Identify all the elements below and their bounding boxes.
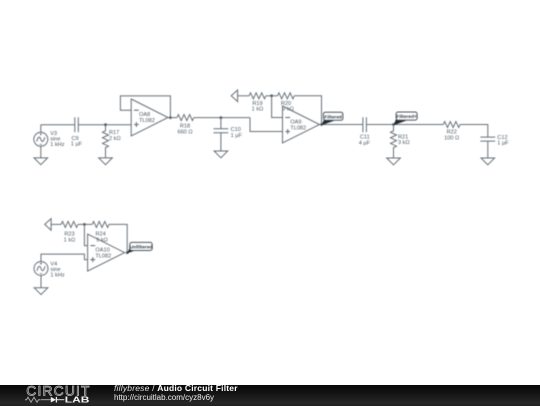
label OA8 name <box>139 112 155 124</box>
ground under C10 <box>214 151 228 158</box>
label C12 value <box>497 135 509 147</box>
resistor R22 <box>443 122 460 128</box>
junction at R17 <box>104 123 107 126</box>
wire V3 top <box>40 125 42 133</box>
wire ground to R23 <box>51 223 61 225</box>
op-amp OA9 <box>283 106 320 143</box>
junction OA10 output <box>126 251 129 254</box>
wire R19 to R20 <box>266 95 278 97</box>
junction feedback OA10 <box>83 223 86 226</box>
wire R18 to step <box>194 117 250 119</box>
flag label Filtered <box>321 112 343 125</box>
resistor R20 <box>278 93 295 99</box>
wire junction to OA10 minus input <box>84 224 87 245</box>
junction feedback OA9 <box>270 94 273 97</box>
wire OA9 output to C11 <box>320 124 363 126</box>
label R24 value <box>95 232 107 244</box>
junction OA8 output <box>169 116 172 119</box>
svg-text:TL082: TL082 <box>139 118 155 124</box>
label C9 value <box>71 136 83 148</box>
wire step down to OA9 plus input <box>250 118 283 132</box>
capacitor C12 <box>480 137 495 158</box>
ground under V3 <box>34 158 48 165</box>
wire R24 to OA10 output <box>109 224 127 252</box>
svg-text:2 kΩ: 2 kΩ <box>109 136 121 142</box>
wire OA8 feedback loop <box>120 96 170 118</box>
footer url text <box>114 393 214 402</box>
ground left of R23 <box>45 219 51 231</box>
label R17 value <box>109 130 121 142</box>
capacitor C10 <box>214 118 229 151</box>
resistor R23 <box>61 221 78 227</box>
svg-text:1 kHz: 1 kHz <box>50 272 65 278</box>
ground under C12 <box>481 158 495 165</box>
label R22 value <box>444 130 459 142</box>
resistor R24 <box>92 221 109 227</box>
svg-text:3 kΩ: 3 kΩ <box>398 140 410 146</box>
svg-text:1 µF: 1 µF <box>71 142 83 148</box>
capacitor C11 <box>363 117 367 132</box>
label R21 value <box>398 134 410 146</box>
wire C11 to R22 <box>366 124 443 126</box>
wire V4 bottom <box>40 276 42 288</box>
voltage source V3 <box>34 132 48 146</box>
svg-text:TL082: TL082 <box>290 125 306 131</box>
svg-text:1 kΩ: 1 kΩ <box>64 237 76 243</box>
label OA10 name <box>95 248 111 260</box>
junction at R21 <box>392 123 395 126</box>
svg-text:Filtered: Filtered <box>324 114 342 120</box>
svg-text:TL082: TL082 <box>95 253 111 259</box>
op-amp OA8 <box>131 99 168 136</box>
capacitor C9 <box>75 117 79 132</box>
svg-text:4 µF: 4 µF <box>359 140 371 146</box>
label OA9 name <box>290 120 306 132</box>
resistor R18 <box>177 115 194 121</box>
junction at C10 <box>220 116 223 119</box>
op-amp OA10 <box>88 234 125 271</box>
label C10 value <box>231 127 243 139</box>
wire OA8 output <box>168 117 177 119</box>
label R19 value <box>252 101 264 113</box>
footer bar <box>0 385 540 406</box>
svg-text:LAB: LAB <box>65 396 90 405</box>
wire R20 to OA9 output <box>294 96 321 125</box>
flag label Unfiltered <box>127 242 152 253</box>
svg-text:1 kΩ: 1 kΩ <box>252 107 264 113</box>
svg-text:Filtered+: Filtered+ <box>396 114 417 120</box>
label R23 value <box>64 232 76 244</box>
CircuitLab logo <box>0 384 110 405</box>
footer title text <box>114 383 238 393</box>
voltage source V4 <box>34 262 48 276</box>
ground under R21 <box>387 158 401 165</box>
wire V4 to OA10 plus input <box>41 254 88 261</box>
label R20 value <box>281 101 294 113</box>
junction OA9 output <box>320 123 323 126</box>
svg-text:1 µF: 1 µF <box>231 133 243 139</box>
ground under R17 <box>99 158 113 165</box>
wire junction to OA9 minus input <box>272 96 283 118</box>
wire ground to R19 <box>238 95 250 97</box>
label V3 value <box>50 131 65 148</box>
flag label Filtered+ <box>393 112 417 125</box>
wire C9 to op-amp <box>78 124 131 126</box>
label C11 value <box>359 134 371 146</box>
wire R22 to C12 <box>460 125 488 138</box>
ground under V4 <box>34 288 48 295</box>
svg-text:660 Ω: 660 Ω <box>177 129 192 135</box>
label R18 value <box>177 123 192 135</box>
svg-text:1 kHz: 1 kHz <box>50 142 65 148</box>
svg-text:9 kΩ: 9 kΩ <box>282 107 294 113</box>
svg-text:100 Ω: 100 Ω <box>444 136 459 142</box>
wire V3 bottom <box>40 146 42 158</box>
wire R23 to R24 <box>78 223 92 225</box>
resistor R17 <box>103 125 109 158</box>
svg-text:Unfiltered: Unfiltered <box>130 245 153 251</box>
svg-text:1 µF: 1 µF <box>497 141 509 147</box>
svg-text:9 kΩ: 9 kΩ <box>96 237 108 243</box>
resistor R19 <box>249 93 266 99</box>
wire V3 to C9 <box>41 124 75 126</box>
resistor R21 <box>391 125 397 159</box>
label V4 value <box>50 261 65 278</box>
ground left of R19 <box>231 90 237 102</box>
